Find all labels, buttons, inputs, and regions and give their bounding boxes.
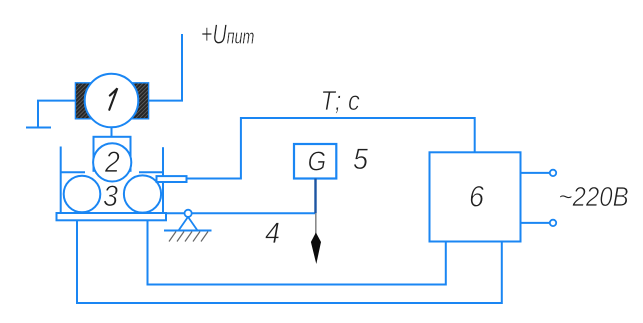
svg-text:5: 5 <box>353 143 368 177</box>
svg-text:2: 2 <box>104 145 120 179</box>
svg-text:~220В: ~220В <box>558 180 628 212</box>
svg-text:6: 6 <box>469 180 484 214</box>
svg-text:+Uпит: +Uпит <box>201 19 254 50</box>
svg-text:3: 3 <box>103 180 118 214</box>
svg-text:4: 4 <box>265 217 280 251</box>
svg-text:G: G <box>308 144 327 176</box>
svg-text:Т; с: Т; с <box>321 84 360 116</box>
